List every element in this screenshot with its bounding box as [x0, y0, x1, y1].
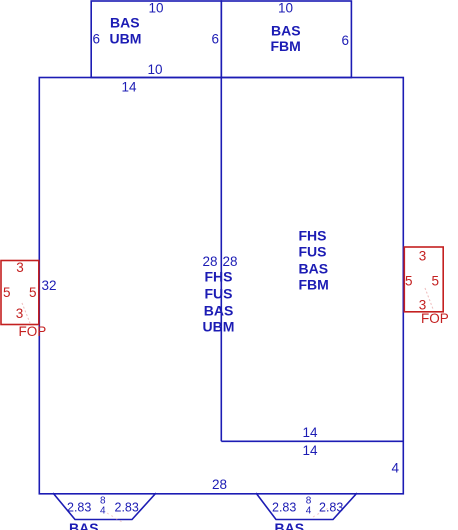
svg-text:FBM: FBM	[299, 277, 329, 293]
leader line right notch	[313, 503, 337, 517]
svg-text:UBM: UBM	[203, 319, 235, 335]
inner horizontal wire	[221, 440, 403, 442]
svg-text:5: 5	[432, 274, 440, 289]
svg-text:5: 5	[405, 274, 413, 289]
svg-text:28: 28	[202, 254, 217, 269]
svg-text:BAS: BAS	[110, 15, 140, 31]
main outline box	[39, 78, 403, 494]
center vertical wire	[220, 78, 222, 442]
svg-text:14: 14	[121, 80, 137, 95]
right red pad FOP	[404, 247, 443, 312]
top-left package box BAS UBM	[91, 1, 221, 78]
svg-text:BAS: BAS	[271, 23, 301, 39]
svg-text:6: 6	[341, 33, 349, 48]
svg-text:BAS: BAS	[204, 303, 234, 319]
svg-text:10: 10	[148, 1, 163, 16]
svg-text:4: 4	[100, 506, 106, 517]
svg-text:BAS: BAS	[299, 261, 329, 277]
svg-text:4: 4	[391, 461, 399, 476]
svg-text:4: 4	[306, 506, 312, 517]
svg-text:14: 14	[302, 425, 318, 440]
svg-text:2.83: 2.83	[272, 501, 296, 515]
svg-text:FOP: FOP	[19, 324, 47, 339]
svg-text:6: 6	[93, 32, 101, 47]
svg-text:3: 3	[419, 249, 427, 264]
leader line left	[22, 303, 30, 323]
svg-text:2.83: 2.83	[115, 501, 139, 515]
svg-text:10: 10	[278, 1, 293, 16]
svg-text:10: 10	[147, 62, 162, 77]
bottom-left trapezoid notch	[53, 493, 156, 520]
svg-text:FUS: FUS	[299, 244, 327, 260]
svg-text:32: 32	[42, 278, 57, 293]
svg-text:FUS: FUS	[205, 286, 233, 302]
svg-text:FBM: FBM	[271, 38, 301, 54]
svg-text:5: 5	[29, 285, 37, 300]
bottom-right trapezoid notch	[256, 493, 357, 520]
svg-text:BAS: BAS	[69, 520, 99, 530]
svg-text:28: 28	[212, 477, 227, 492]
svg-text:UBM: UBM	[110, 31, 142, 47]
svg-text:2.83: 2.83	[319, 501, 343, 515]
top-right package box BAS FBM	[221, 1, 351, 78]
svg-text:5: 5	[3, 285, 11, 300]
svg-text:2.83: 2.83	[67, 501, 91, 515]
svg-text:FOP: FOP	[421, 311, 449, 326]
svg-text:3: 3	[16, 260, 24, 275]
svg-text:FHS: FHS	[205, 269, 233, 285]
svg-text:14: 14	[302, 443, 318, 458]
leader line left notch	[107, 513, 122, 522]
svg-text:6: 6	[211, 32, 219, 47]
svg-text:BAS: BAS	[275, 520, 305, 530]
left red pad FOP	[1, 261, 39, 325]
svg-text:FHS: FHS	[299, 228, 327, 244]
svg-text:3: 3	[16, 306, 24, 321]
svg-text:28: 28	[223, 254, 238, 269]
leader line right	[425, 288, 433, 309]
